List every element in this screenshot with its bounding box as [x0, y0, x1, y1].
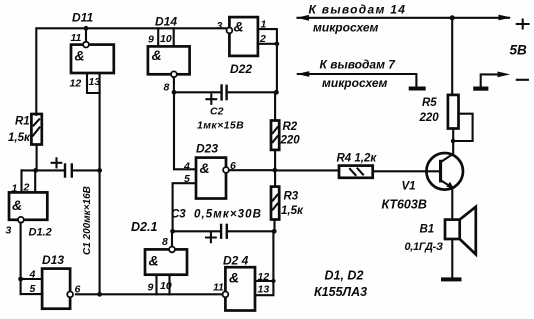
gate D2.4 [213, 231, 276, 310]
wire: bottom rail (D1.3 out to D2.4 out) [76, 293, 223, 295]
svg-text:8: 8 [164, 82, 170, 94]
svg-text:R5: R5 [422, 97, 437, 109]
capacitor C2 [174, 84, 276, 131]
svg-text:12: 12 [258, 271, 270, 283]
gate D1.1 [70, 11, 114, 94]
svg-text:V1: V1 [402, 181, 416, 193]
transistor V1 [382, 153, 464, 212]
gate D1.4 [148, 15, 190, 94]
svg-text:C1 200мк×16В: C1 200мк×16В [82, 186, 93, 255]
svg-text:КТ603В: КТ603В [382, 198, 427, 212]
svg-text:К выводам 14: К выводам 14 [309, 3, 407, 17]
svg-text:R4 1,2к: R4 1,2к [337, 153, 378, 165]
svg-text:&: & [75, 48, 85, 64]
svg-text:10: 10 [160, 280, 172, 292]
svg-text:11: 11 [71, 32, 82, 44]
wire: ground rail (pins 7) with arrow [297, 58, 417, 91]
svg-text:D13: D13 [42, 253, 64, 267]
svg-text:3: 3 [217, 20, 223, 32]
resistor R5 [419, 18, 459, 153]
svg-text:10: 10 [160, 33, 172, 45]
wire: D2.3 out to R2/R3 node [229, 169, 275, 171]
svg-text:C3: C3 [171, 209, 186, 221]
svg-text:R2: R2 [283, 121, 298, 133]
svg-text:1,5к: 1,5к [281, 205, 304, 217]
svg-text:D2.1: D2.1 [131, 220, 157, 234]
svg-text:&: & [152, 47, 162, 63]
svg-text:1мк×15В: 1мк×15В [197, 120, 244, 132]
capacitor C1 [22, 158, 100, 255]
svg-text:D22: D22 [230, 62, 252, 76]
svg-text:11: 11 [213, 282, 224, 294]
svg-text:&: & [234, 19, 244, 35]
node: junction R1 bottom / D1.2 pin 2 [33, 168, 38, 173]
gate D1.3 [21, 253, 81, 309]
wire: D2.3 pin 5 down to C3 left node [173, 183, 196, 231]
wire: power rail +5V with arrows [297, 3, 512, 35]
gate D2.3 [183, 142, 236, 199]
svg-text:2: 2 [23, 182, 30, 194]
node: junction C2 right / R2 top [274, 90, 279, 95]
svg-text:5: 5 [30, 283, 36, 295]
wire: oscillator top rail (D1.1 out to D2.2 out) [36, 28, 226, 115]
svg-text:C2: C2 [210, 106, 224, 118]
node: junction C1 right / D1.1 inputs wire [97, 168, 102, 173]
label: D1, D2 K155LA3 [314, 269, 367, 300]
svg-text:R3: R3 [284, 191, 299, 203]
gate D1.2 [6, 170, 52, 238]
svg-text:6: 6 [75, 284, 81, 296]
svg-text:9: 9 [148, 282, 154, 294]
svg-text:0,5мк×30В: 0,5мк×30В [194, 209, 262, 221]
wire: collector tap loop from R5 to collector lead [451, 114, 473, 144]
wire: D1.1 inputs 12,13 down to bottom rail [99, 93, 101, 294]
svg-text:220: 220 [280, 135, 301, 147]
capacitor C3 [171, 209, 274, 243]
svg-text:12: 12 [70, 78, 82, 90]
svg-text:В1: В1 [420, 224, 435, 236]
svg-text:D1, D2: D1, D2 [325, 269, 364, 283]
svg-text:2: 2 [259, 33, 266, 45]
resistor R3 [271, 170, 304, 231]
node: junction D1.2 out / D1.3 pin 4 [18, 277, 23, 282]
svg-text:3: 3 [6, 225, 12, 237]
svg-text:13: 13 [89, 76, 101, 88]
resistor R1 [8, 114, 42, 170]
svg-text:1,5к: 1,5к [8, 132, 31, 144]
node: junction D1.1 pin 11 on top rail [84, 26, 89, 31]
svg-text:D1.2: D1.2 [29, 227, 52, 239]
svg-text:микросхем: микросхем [322, 76, 388, 90]
svg-text:8: 8 [162, 236, 168, 248]
svg-text:4: 4 [183, 161, 190, 173]
svg-text:D2 4: D2 4 [223, 254, 249, 268]
svg-text:D11: D11 [72, 11, 93, 25]
svg-text:&: & [200, 160, 210, 176]
node: junction C3 right / R3 bottom / D2.4 in [272, 229, 277, 234]
node: junction bottom rail / D1.1 inputs wire [97, 292, 102, 297]
svg-text:К155ЛА3: К155ЛА3 [314, 285, 367, 299]
svg-text:0,1ГД-З: 0,1ГД-З [405, 241, 444, 253]
svg-text:1: 1 [12, 183, 18, 195]
terminal: +5V [510, 20, 529, 58]
node: junction R2 bottom / D2.3 out / base wire [272, 168, 277, 173]
wire: D1.4 out down to D2.3 pin 4 [174, 92, 196, 169]
node: junction C3 left / D2.1 out / D2.3 pin5 [170, 229, 175, 234]
svg-text:5В: 5В [510, 43, 528, 58]
ground: emitter/speaker return [441, 277, 462, 281]
wire: base wire from R2/R3 node to R4 [275, 169, 339, 171]
gate D2.2 [217, 17, 280, 92]
wire: D1.2 out down to D1.3 inputs [20, 223, 22, 294]
svg-text:5: 5 [184, 173, 190, 185]
terminal: minus with ground [473, 72, 528, 91]
svg-text:&: & [12, 197, 22, 213]
resistor R2 [271, 92, 300, 170]
svg-text:D14: D14 [155, 15, 177, 29]
svg-text:9: 9 [148, 34, 154, 46]
svg-text:13: 13 [258, 284, 270, 296]
resistor R4 [337, 153, 440, 178]
svg-text:4: 4 [29, 269, 36, 281]
svg-text:220: 220 [419, 112, 440, 124]
speaker B1 [405, 190, 476, 278]
svg-text:К выводам 7: К выводам 7 [320, 58, 397, 72]
svg-text:1: 1 [261, 19, 267, 31]
node: junction D1.4 out / C2 left [172, 90, 177, 95]
gate D2.1 [131, 220, 187, 294]
ground: under pins-7 rail [409, 87, 426, 91]
svg-text:&: & [149, 253, 159, 269]
svg-text:D23: D23 [196, 142, 218, 156]
svg-text:&: & [229, 270, 239, 286]
svg-text:R1: R1 [15, 116, 30, 128]
svg-text:микросхем: микросхем [313, 21, 379, 35]
